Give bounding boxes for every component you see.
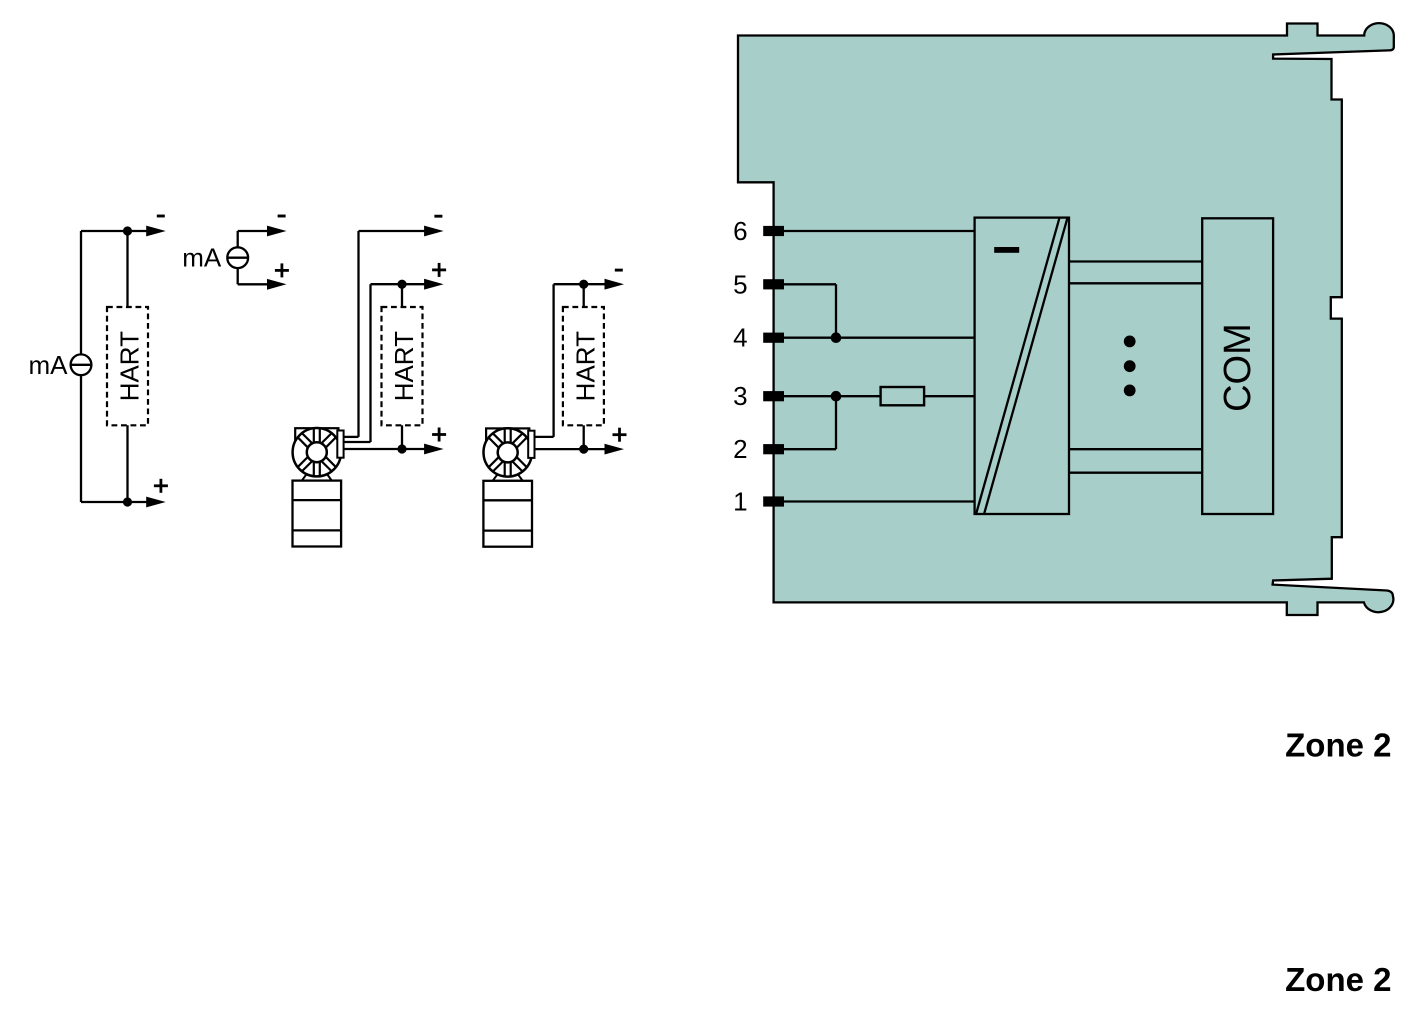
svg-text:Zone 2: Zone 2 <box>1285 961 1391 998</box>
svg-text:COM: COM <box>1217 323 1259 412</box>
svg-text:HART: HART <box>115 331 145 401</box>
svg-text:6: 6 <box>733 216 747 246</box>
svg-text:mA: mA <box>182 243 222 273</box>
svg-text:4: 4 <box>733 323 747 353</box>
svg-text:HART: HART <box>570 331 600 401</box>
svg-text:1: 1 <box>733 487 747 517</box>
svg-text:Zone 2: Zone 2 <box>1285 727 1391 764</box>
svg-text:5: 5 <box>733 269 747 299</box>
svg-text:HART: HART <box>389 331 419 401</box>
svg-text:2: 2 <box>733 434 747 464</box>
svg-text:3: 3 <box>733 381 747 411</box>
svg-text:mA: mA <box>29 350 69 380</box>
